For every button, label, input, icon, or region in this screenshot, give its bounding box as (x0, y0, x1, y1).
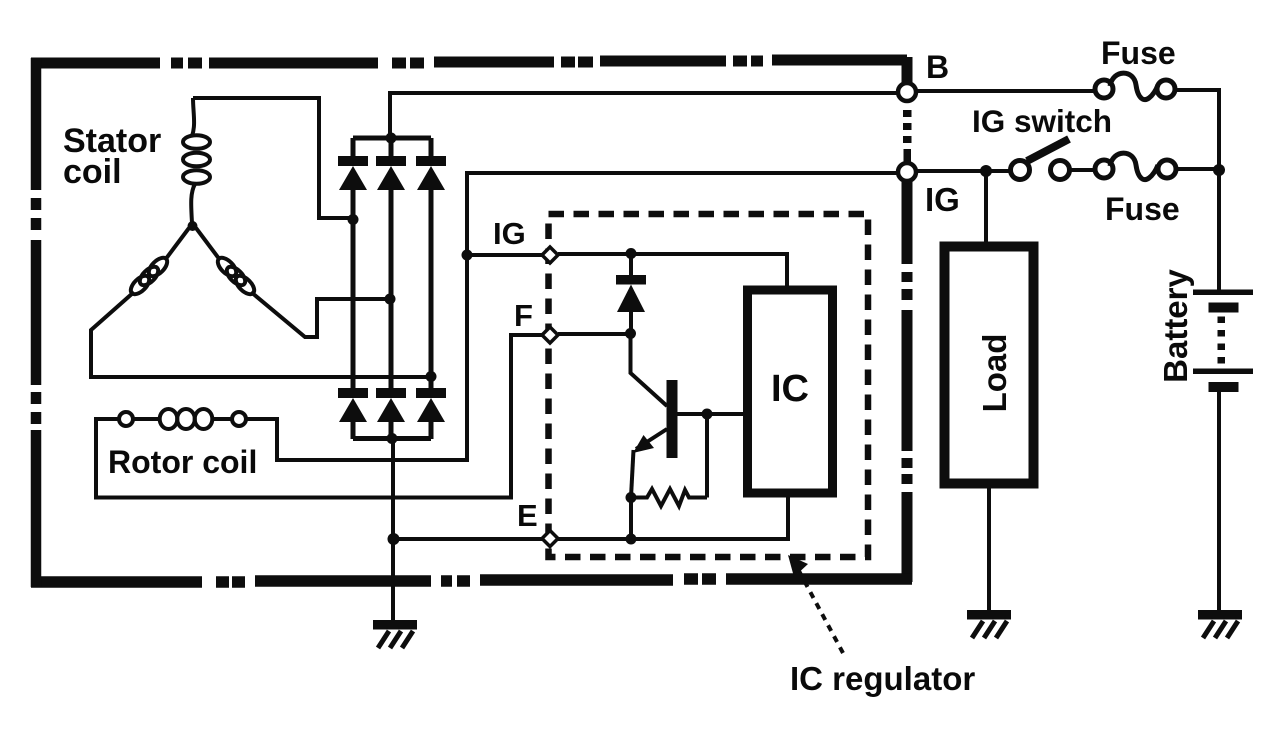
alternator boundary: top-right corner stub down to B terminal (902, 57, 913, 84)
IG net wire from terminal to regulator and rotor (246, 173, 898, 460)
rectifier bottom bus (353, 436, 431, 441)
svg-text:Fuse: Fuse (1105, 191, 1180, 227)
stator phase 1 tap junction (348, 214, 359, 225)
alternator boundary: right edge dots between B and IG terminals (903, 110, 912, 117)
IC regulator callout arrowhead (788, 555, 808, 577)
svg-text:Battery: Battery (1157, 269, 1194, 383)
diode D6 (bottom right) (416, 388, 446, 439)
svg-text:Fuse: Fuse (1101, 35, 1176, 71)
wire emitter node to E wire (629, 498, 633, 540)
load block (945, 247, 1034, 484)
IG tap junction to regulator (462, 250, 473, 261)
node F (regulator terminal) (542, 327, 558, 343)
stator coil phase 3 diagonal (down-left) (165, 228, 189, 260)
IG tap wire (467, 253, 543, 257)
svg-text:IG: IG (925, 181, 960, 218)
svg-text:IC: IC (771, 368, 809, 410)
wire fuse 1 to battery rail (1175, 90, 1219, 165)
svg-text:IC regulator: IC regulator (790, 660, 975, 697)
rectifier top bus junction to B (386, 133, 397, 144)
svg-text:F: F (514, 298, 533, 333)
wire fuse 2 to battery rail (1176, 167, 1219, 171)
wire F node to transistor collector junction (558, 332, 630, 336)
node B wire from rectifier (390, 93, 898, 138)
battery rail upper (1217, 170, 1221, 290)
wire switch to fuse 2 (1067, 168, 1096, 172)
stator coil phase 1 winding (183, 135, 210, 149)
IC block U1 (748, 290, 833, 493)
stator phase 3 wire to rectifier (91, 292, 430, 377)
E wire junction (626, 534, 637, 545)
rotor coil (119, 409, 246, 429)
wire B to fuse 1 (916, 89, 1095, 93)
resistor left junction (626, 492, 637, 503)
svg-text:IG switch: IG switch (972, 103, 1112, 139)
collector junction (625, 328, 636, 339)
svg-text:B: B (926, 49, 949, 85)
rectifier bottom bus ground junction (387, 433, 398, 444)
base node junction (702, 409, 713, 420)
fuse F1 (charge line) (1095, 73, 1175, 100)
diode D4 (bottom left) (338, 388, 368, 439)
diode D1 (top left) (338, 138, 368, 389)
battery ground wire (1217, 392, 1221, 610)
alternator boundary: left edge (31, 58, 42, 587)
wire rotor coil to F node (96, 335, 543, 498)
svg-text:IG: IG (493, 216, 526, 251)
wire IG terminal to switch (916, 169, 1013, 173)
svg-text:coil: coil (63, 153, 122, 191)
ground wire from rectifier (391, 438, 395, 620)
IG terminal (898, 163, 916, 181)
battery rail junction (1213, 164, 1225, 176)
node IG (regulator terminal) (542, 247, 558, 263)
diode D5 (bottom middle) (376, 388, 406, 439)
rectifier top bus (353, 136, 431, 141)
diode tap junction on IG wire (626, 248, 637, 259)
ground symbol under battery (1198, 610, 1242, 638)
flyback diode D7 (616, 254, 646, 332)
load feed wire (984, 171, 988, 247)
stator phase 3 tap junction (426, 371, 437, 382)
alternator boundary: right edge below IG terminal (902, 181, 913, 582)
transistor Q1 emitter lead with arrow (636, 429, 667, 449)
alternator boundary: top border (phantom dash-dot) (31, 60, 907, 63)
wire resistor to base node (705, 414, 709, 498)
ground junction with E wire (388, 533, 400, 545)
IC regulator dashed enclosure (549, 214, 869, 557)
stator phase 2 wire to rectifier (251, 292, 388, 337)
diode D2 (top middle) (376, 138, 406, 389)
base drive wire from IC (677, 412, 747, 416)
stator coil phase 1 wire (top) (192, 98, 349, 218)
E wire to IC bottom (558, 494, 788, 539)
ground symbol under load (967, 610, 1011, 638)
transistor Q1 base bar (667, 380, 678, 458)
svg-text:E: E (517, 498, 538, 533)
wire IG node to IC (558, 254, 787, 291)
stator coil phase 1 lower stem (191, 184, 195, 223)
ground symbol under rectifier (373, 620, 417, 648)
B terminal (898, 83, 916, 101)
diode D3 (top right) (416, 138, 446, 389)
svg-text:Load: Load (976, 334, 1013, 413)
resistor R1 (base-emitter) (631, 489, 707, 506)
IC regulator callout leader (dashed) (799, 571, 843, 653)
load ground wire (987, 484, 991, 610)
node E (regulator terminal) (542, 531, 558, 547)
alternator boundary: bottom edge (31, 579, 912, 582)
E wire inside alternator (394, 537, 542, 541)
fuse F2 (ignition) (1095, 153, 1176, 180)
IG switch (1011, 139, 1070, 180)
transistor Q1 collector lead (631, 334, 668, 406)
svg-text:Rotor coil: Rotor coil (108, 444, 257, 480)
stator phase 2 tap junction (385, 294, 396, 305)
battery cell plates (1193, 290, 1253, 393)
load tap junction (980, 165, 992, 177)
stator neutral junction (188, 221, 198, 231)
stator coil phase 2 diagonal (down-right) (196, 228, 220, 260)
